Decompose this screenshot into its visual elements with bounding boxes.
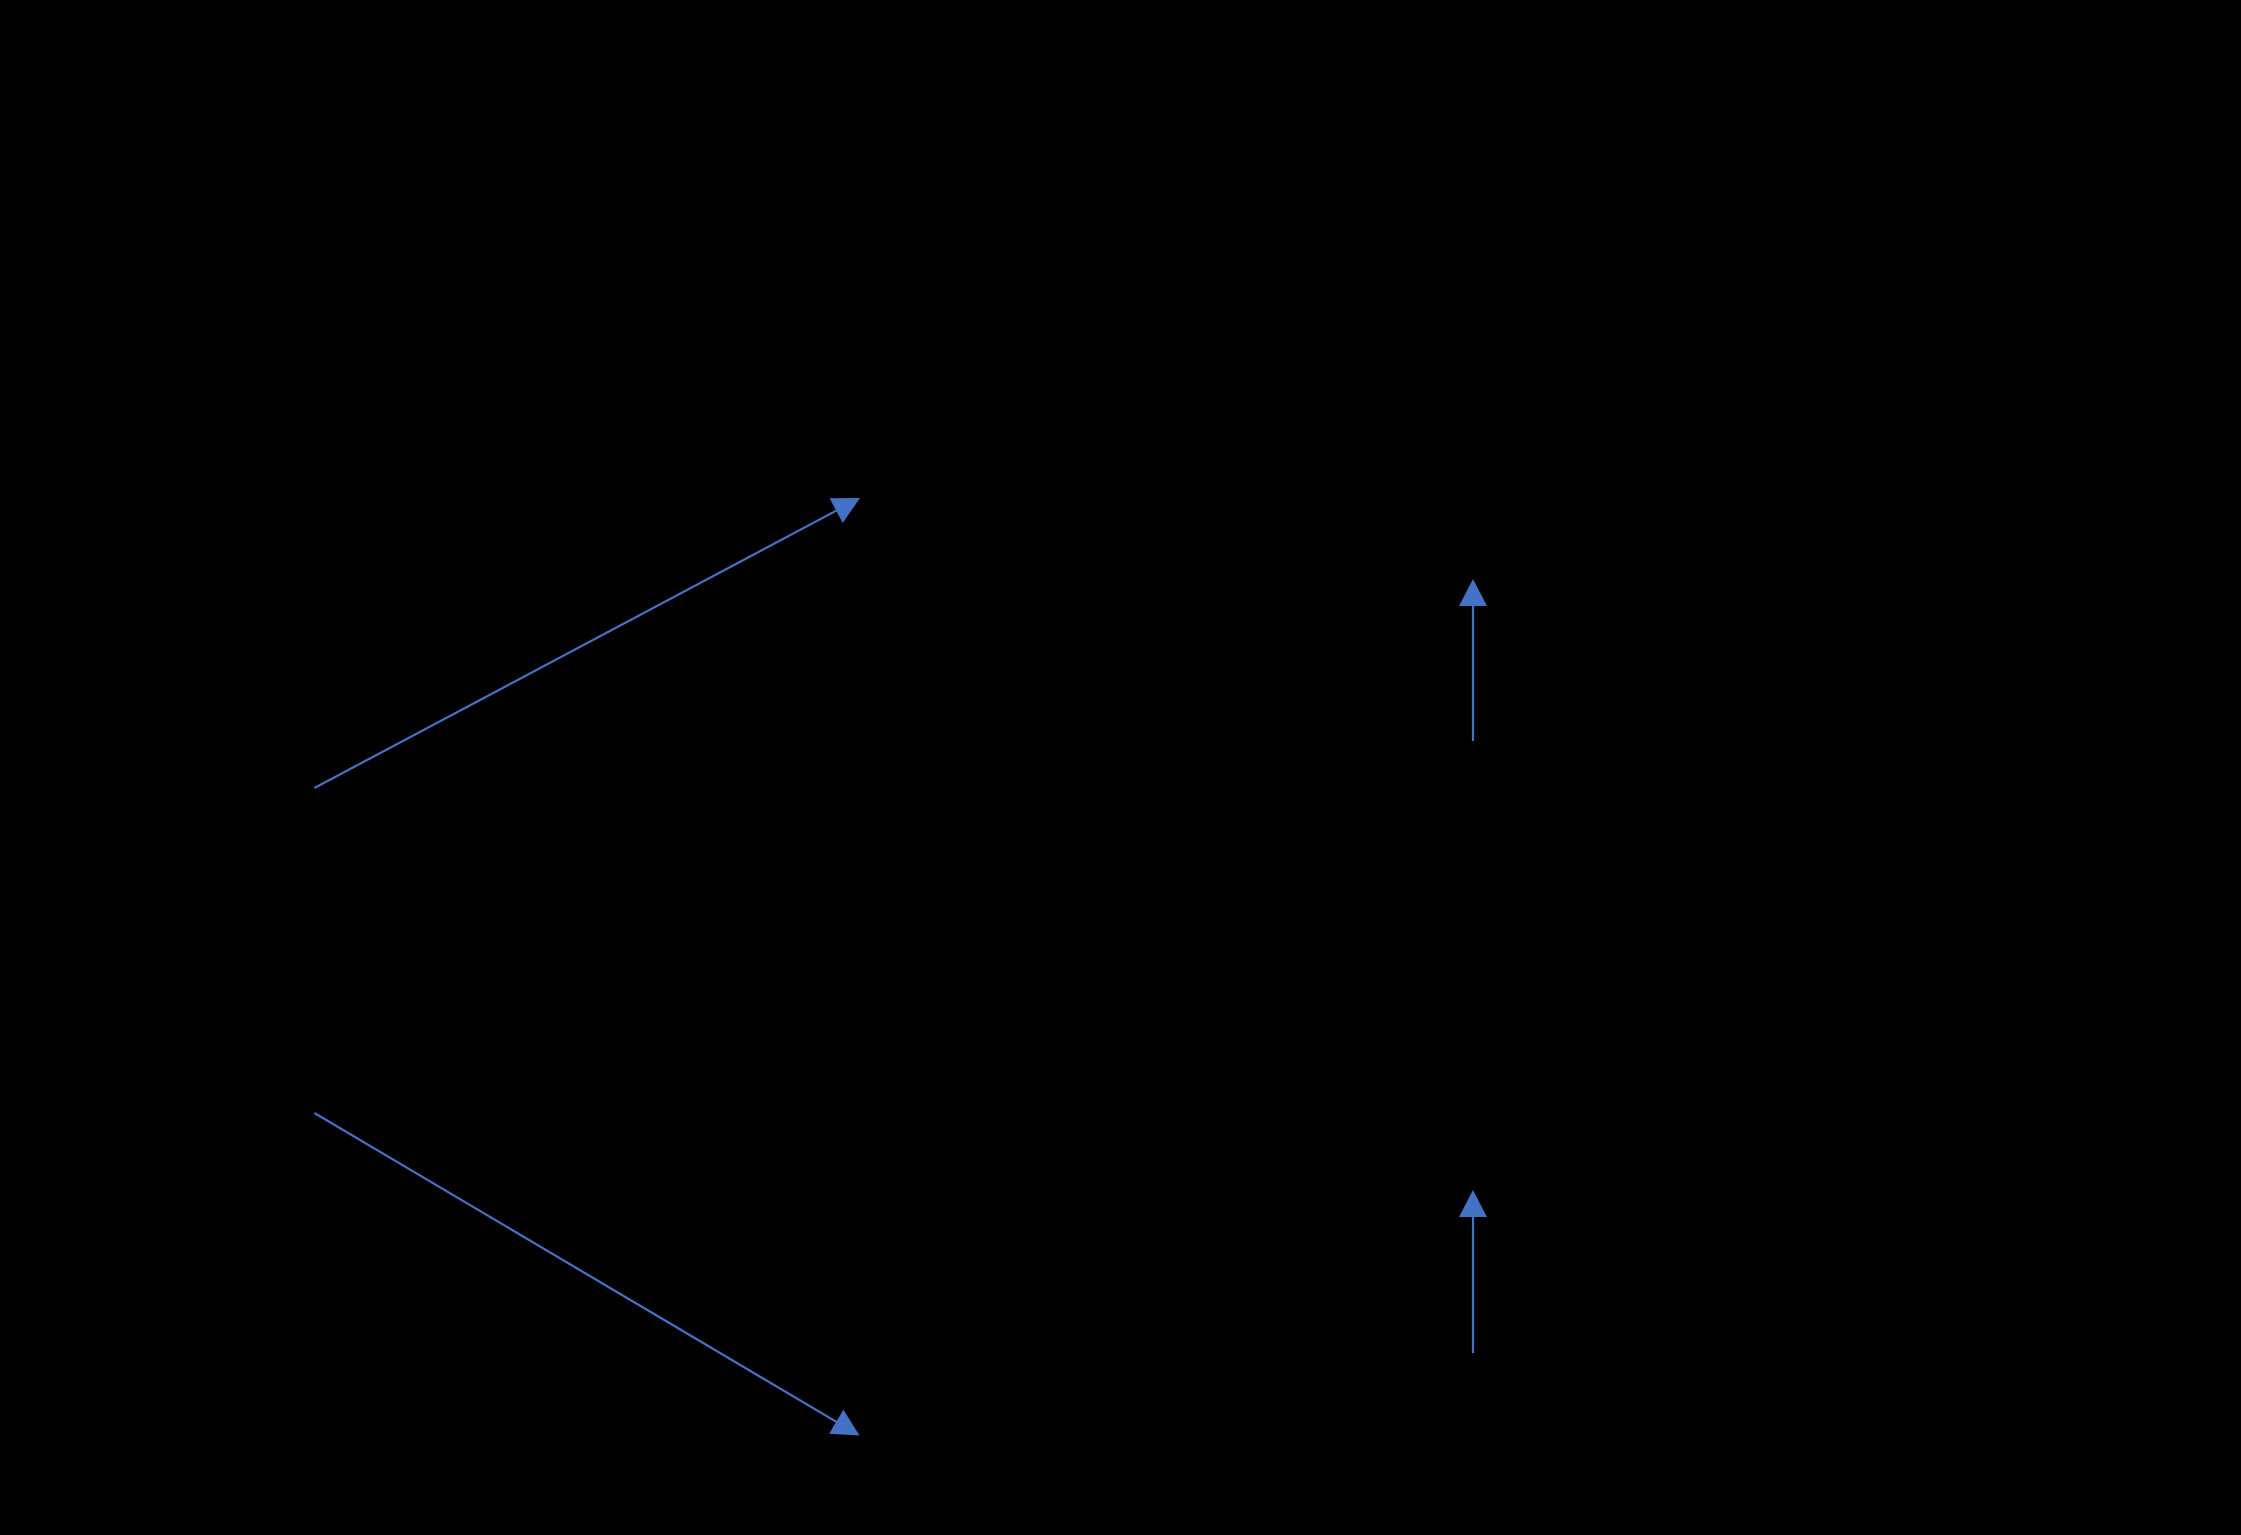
- wire: vertical line: [1472, 606, 1474, 741]
- arrow 3: upper vertical up arrow: [1459, 579, 1487, 741]
- arrowhead of arrow 3: [1459, 579, 1487, 606]
- arrow 4: lower vertical up arrow: [1459, 1190, 1487, 1353]
- wire: line from upper-left to lower-right: [314, 1113, 836, 1422]
- wire: vertical line: [1472, 1217, 1474, 1353]
- arrowhead of arrow 1: [830, 498, 860, 523]
- arrow 1: diagonal up-right connector: [314, 498, 860, 788]
- arrowhead of arrow 2: [829, 1410, 859, 1436]
- wire: line from lower-left to upper-right: [314, 511, 836, 788]
- arrowhead of arrow 4: [1459, 1190, 1487, 1217]
- arrow 2: diagonal down-right connector: [314, 1113, 859, 1436]
